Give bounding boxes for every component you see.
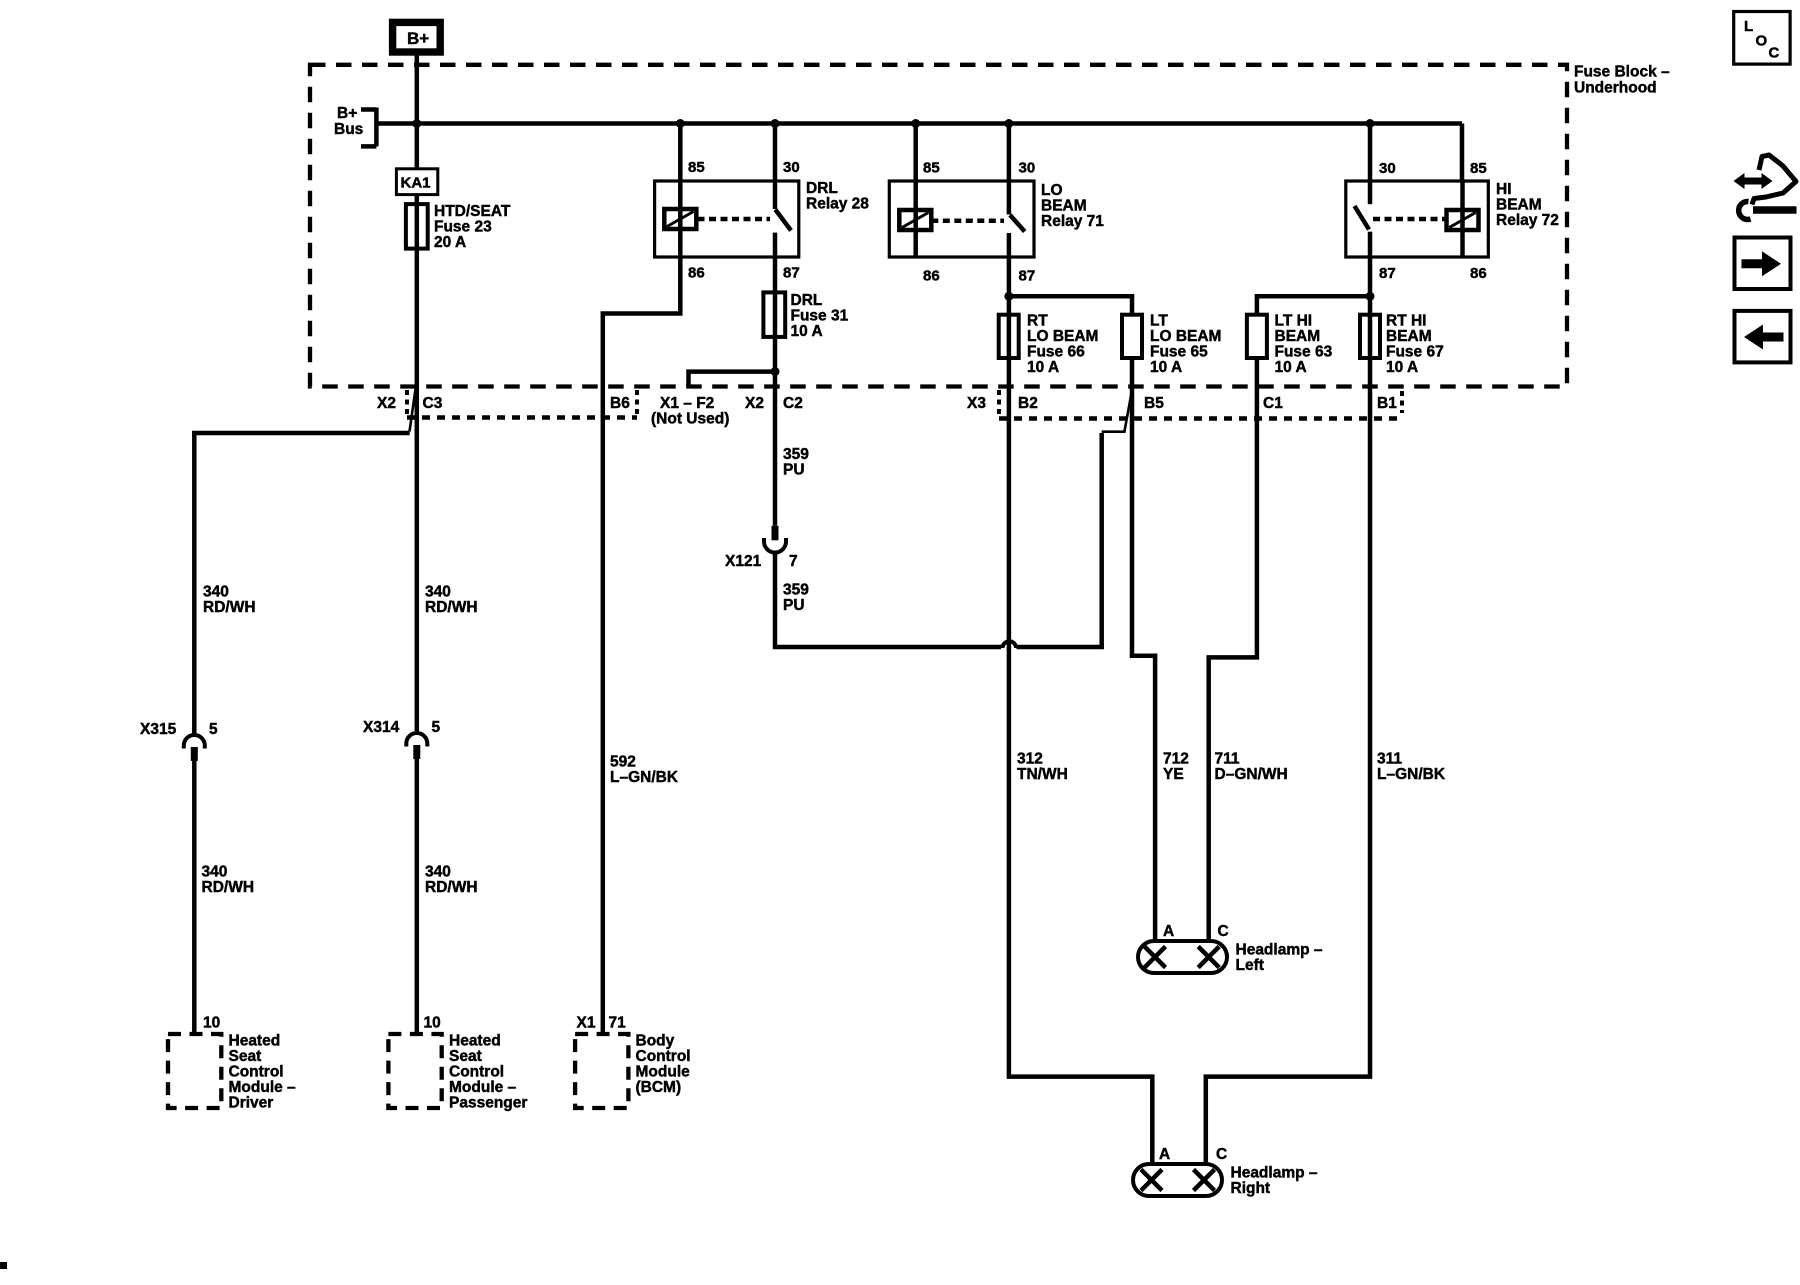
svg-text:L: L (1744, 18, 1753, 35)
relay 28 coil (678, 181, 683, 257)
svg-text:RD/WH: RD/WH (202, 879, 255, 896)
wire hop over fuse 66 wire (1003, 641, 1017, 648)
connector X2/C3 B6 row (dotted) (405, 390, 409, 418)
relay 72 dashed actuator link (1373, 217, 1447, 222)
backward reference arrow box (1735, 311, 1791, 363)
wire bus to HI BEAM relay pin 30 (1368, 124, 1373, 182)
svg-text:359: 359 (783, 582, 809, 599)
svg-text:592: 592 (610, 754, 636, 771)
svg-text:87: 87 (1379, 265, 1396, 282)
svg-text:C: C (1216, 1146, 1227, 1163)
fuse block underhood dashed box (310, 65, 1567, 387)
svg-text:Heated: Heated (229, 1033, 281, 1050)
node junction dot below relay 71 (1004, 292, 1013, 301)
svg-text:10 A: 10 A (791, 323, 823, 340)
svg-text:Fuse 67: Fuse 67 (1386, 344, 1444, 361)
relay 72 switch pin 30 and blade (1368, 181, 1373, 204)
svg-text:X314: X314 (363, 719, 400, 736)
headlamp left (1138, 941, 1227, 973)
svg-text:B2: B2 (1018, 395, 1038, 412)
svg-text:RD/WH: RD/WH (425, 879, 478, 896)
svg-text:85: 85 (923, 160, 940, 177)
fuse RT HI BEAM Fuse 67 10A (1360, 315, 1380, 358)
svg-text:Seat: Seat (229, 1048, 262, 1065)
svg-text:Passenger: Passenger (449, 1095, 527, 1112)
svg-text:Control: Control (229, 1064, 284, 1081)
svg-text:Headlamp –: Headlamp – (1231, 1165, 1318, 1182)
relay 71 switch pin 30 and blade (1007, 181, 1012, 215)
wire fuse 65 down to jog and headlamp left A (1132, 358, 1155, 941)
service information arrow-wrench icon (1742, 178, 1764, 185)
relay 28 switch pin 30 and blade (773, 181, 778, 209)
svg-text:L–GN/BK: L–GN/BK (610, 769, 679, 786)
wire fuse 63 down to jog and headlamp left C (1209, 358, 1257, 941)
svg-text:Control: Control (636, 1048, 691, 1065)
svg-text:10: 10 (424, 1015, 441, 1032)
relay 71 pin 87 stub (1007, 233, 1012, 257)
svg-text:Control: Control (449, 1064, 504, 1081)
svg-text:B+: B+ (407, 29, 429, 48)
svg-text:DRL: DRL (791, 292, 823, 309)
relay HI BEAM Relay 72 box (1346, 181, 1489, 257)
svg-text:10: 10 (203, 1015, 220, 1032)
svg-text:71: 71 (609, 1015, 627, 1032)
LOC navigation box icon (1734, 12, 1790, 65)
svg-text:10 A: 10 A (1275, 359, 1307, 376)
svg-text:LT: LT (1150, 313, 1168, 330)
node: bus junction dot at LO BEAM relay 85 (911, 119, 920, 128)
node junction dot on C2 wire (771, 367, 780, 376)
svg-text:X315: X315 (140, 721, 177, 738)
svg-text:10 A: 10 A (1386, 359, 1418, 376)
relay DRL Relay 28 box (655, 181, 799, 257)
node: bus junction dot at DRL relay 85 (676, 119, 685, 128)
svg-text:20 A: 20 A (434, 234, 466, 251)
heated seat control module passenger dashed box (388, 1034, 441, 1108)
fuse RT LO BEAM Fuse 66 10A (999, 315, 1019, 358)
svg-text:Fuse 63: Fuse 63 (1275, 344, 1333, 361)
wire relay 71 pin 87 down through RT LO BEAM fuse 66 to headlamp right A (1009, 257, 1152, 1164)
svg-text:340: 340 (202, 864, 228, 881)
relay 72 coil (1460, 181, 1465, 257)
svg-text:Relay 71: Relay 71 (1041, 213, 1104, 230)
svg-text:X121: X121 (725, 553, 762, 570)
svg-text:Bus: Bus (334, 121, 363, 138)
svg-text:311: 311 (1377, 751, 1402, 768)
wire X121 down and right to B5 branch (775, 433, 1102, 647)
svg-text:359: 359 (783, 446, 809, 463)
fuse HTD/SEAT Fuse 23 20A (406, 204, 428, 249)
svg-text:86: 86 (688, 265, 705, 282)
heated seat control module driver dashed box (168, 1034, 221, 1108)
svg-text:Body: Body (636, 1033, 675, 1050)
svg-text:HI: HI (1496, 181, 1512, 198)
svg-text:A: A (1159, 1146, 1170, 1163)
svg-text:Seat: Seat (449, 1048, 482, 1065)
svg-text:C2: C2 (783, 395, 803, 412)
svg-text:X2: X2 (745, 395, 764, 412)
svg-text:5: 5 (432, 719, 441, 736)
relay 71 coil (913, 181, 918, 257)
wire from B+ down through fuse 23 to connector C3 (415, 55, 420, 731)
svg-text:RT HI: RT HI (1386, 313, 1426, 330)
svg-text:85: 85 (688, 159, 705, 176)
svg-text:340: 340 (203, 584, 229, 601)
svg-text:LO BEAM: LO BEAM (1027, 328, 1098, 345)
svg-text:Fuse 66: Fuse 66 (1027, 344, 1085, 361)
svg-text:712: 712 (1163, 751, 1189, 768)
svg-text:C1: C1 (1263, 395, 1283, 412)
svg-text:Right: Right (1231, 1180, 1271, 1197)
KA1 label box (396, 169, 437, 195)
node junction dot below relay 72 (1366, 292, 1375, 301)
relay LO BEAM Relay 71 box (889, 181, 1034, 257)
svg-text:86: 86 (923, 268, 940, 285)
svg-text:10 A: 10 A (1027, 359, 1059, 376)
wire bus to LO BEAM relay pin 30 (1007, 124, 1012, 182)
svg-text:BEAM: BEAM (1275, 328, 1321, 345)
B+ bus wire (376, 121, 1462, 126)
svg-text:5: 5 (209, 721, 218, 738)
svg-text:(BCM): (BCM) (636, 1079, 682, 1096)
B+ bus bracket label (361, 108, 376, 147)
svg-text:Relay 28: Relay 28 (806, 196, 869, 213)
svg-text:30: 30 (1379, 160, 1396, 177)
svg-text:Module –: Module – (449, 1079, 517, 1096)
svg-text:Fuse Block –: Fuse Block – (1574, 64, 1670, 81)
svg-text:340: 340 (425, 584, 451, 601)
node: B+ bus junction dot (412, 119, 421, 128)
svg-text:Module –: Module – (229, 1079, 297, 1096)
wire branch to LT HI BEAM fuse 63 (1257, 296, 1370, 314)
svg-text:PU: PU (783, 597, 805, 614)
svg-text:PU: PU (783, 462, 805, 479)
svg-text:RT: RT (1027, 313, 1048, 330)
svg-text:Fuse 23: Fuse 23 (434, 218, 492, 235)
svg-text:(Not Used): (Not Used) (651, 411, 729, 428)
svg-text:LO BEAM: LO BEAM (1150, 328, 1221, 345)
svg-text:BEAM: BEAM (1386, 328, 1432, 345)
fuse DRL Fuse 31 10A (763, 292, 785, 337)
wire crimp branch at C3 to heated seat driver (410, 389, 416, 432)
svg-text:LT HI: LT HI (1275, 313, 1313, 330)
svg-text:Fuse 31: Fuse 31 (791, 307, 849, 324)
node: bus junction dot at HI BEAM relay 30 (1366, 119, 1375, 128)
svg-text:BEAM: BEAM (1496, 197, 1542, 214)
svg-text:Underhood: Underhood (1574, 80, 1657, 97)
svg-text:340: 340 (425, 864, 451, 881)
svg-text:C: C (1769, 45, 1780, 62)
connector X121 pin 7 (772, 526, 779, 541)
svg-text:LO: LO (1041, 182, 1063, 199)
connector X3 row (dotted) (997, 390, 1001, 419)
svg-text:Module: Module (636, 1064, 691, 1081)
wire relay 72 pin 87 down through RT HI BEAM fuse 67 to headlamp right C (1206, 257, 1370, 1164)
wire relay 28 pin 87 down through DRL fuse to X121 (773, 257, 778, 526)
svg-text:Left: Left (1236, 957, 1264, 974)
svg-text:B+: B+ (337, 105, 357, 122)
svg-text:YE: YE (1163, 766, 1184, 783)
svg-text:Headlamp –: Headlamp – (1236, 942, 1323, 959)
body control module BCM dashed box (575, 1034, 628, 1108)
headlamp right (1133, 1164, 1222, 1196)
svg-text:C3: C3 (423, 395, 443, 412)
svg-text:DRL: DRL (806, 180, 838, 197)
fuse LT LO BEAM Fuse 65 10A (1122, 315, 1142, 358)
wire X1-F2 not used stub (689, 372, 776, 387)
svg-text:HTD/SEAT: HTD/SEAT (434, 203, 511, 220)
svg-text:A: A (1163, 923, 1174, 940)
wire branch to LT LO BEAM fuse 65 (1009, 296, 1132, 314)
relay 72 pin 87 stub (1368, 232, 1373, 257)
svg-text:10 A: 10 A (1150, 359, 1182, 376)
relay 28 dashed actuator link (698, 217, 771, 222)
node: bus junction dot at DRL relay 30 (771, 119, 780, 128)
svg-text:C: C (1218, 923, 1229, 940)
svg-text:Driver: Driver (229, 1095, 274, 1112)
fuse LT HI BEAM Fuse 63 10A (1247, 315, 1267, 358)
wire bus to LO BEAM relay pin 85 (913, 124, 918, 182)
svg-text:7: 7 (789, 553, 798, 570)
svg-text:B6: B6 (610, 395, 630, 412)
wire bus to DRL relay pin 85 (678, 124, 683, 182)
svg-text:85: 85 (1470, 160, 1487, 177)
svg-text:BEAM: BEAM (1041, 198, 1087, 215)
relay 71 dashed actuator link (931, 219, 1004, 224)
svg-text:X3: X3 (967, 395, 986, 412)
svg-text:Heated: Heated (449, 1033, 501, 1050)
svg-text:X1 – F2: X1 – F2 (660, 395, 714, 412)
svg-text:711: 711 (1215, 751, 1240, 768)
page mark bottom left (0, 1262, 7, 1269)
svg-text:30: 30 (783, 159, 800, 176)
svg-text:X1: X1 (577, 1015, 596, 1032)
svg-text:RD/WH: RD/WH (425, 599, 478, 616)
wire relay 28 pin 86 down and left to B6 (603, 257, 681, 1034)
svg-text:87: 87 (783, 265, 800, 282)
relay 28 pin 87 stub (773, 233, 778, 257)
node: bus junction dot at LO BEAM relay 30 (1004, 119, 1013, 128)
svg-text:X2: X2 (377, 395, 396, 412)
wire crimp branch at B5 to X121 net (1102, 396, 1131, 432)
svg-text:Fuse 65: Fuse 65 (1150, 344, 1208, 361)
svg-text:86: 86 (1470, 265, 1487, 282)
svg-text:30: 30 (1019, 160, 1036, 177)
svg-text:B5: B5 (1144, 395, 1164, 412)
B+ power symbol (393, 22, 441, 52)
svg-text:B1: B1 (1377, 395, 1397, 412)
svg-text:O: O (1756, 33, 1768, 50)
svg-text:L–GN/BK: L–GN/BK (1377, 766, 1446, 783)
connector X314 pin 5 (406, 733, 427, 744)
wire bus to DRL relay pin 30 (773, 124, 778, 182)
connector X315 pin 5 (184, 735, 205, 746)
svg-text:312: 312 (1017, 751, 1043, 768)
svg-text:RD/WH: RD/WH (203, 599, 256, 616)
svg-text:TN/WH: TN/WH (1017, 766, 1068, 783)
svg-text:D–GN/WH: D–GN/WH (1215, 766, 1288, 783)
svg-text:KA1: KA1 (401, 175, 431, 192)
svg-text:87: 87 (1019, 268, 1036, 285)
svg-text:Relay 72: Relay 72 (1496, 212, 1559, 229)
wire bus corner down to HI BEAM relay pin 85 (1460, 124, 1465, 182)
forward reference arrow box (1735, 238, 1791, 290)
